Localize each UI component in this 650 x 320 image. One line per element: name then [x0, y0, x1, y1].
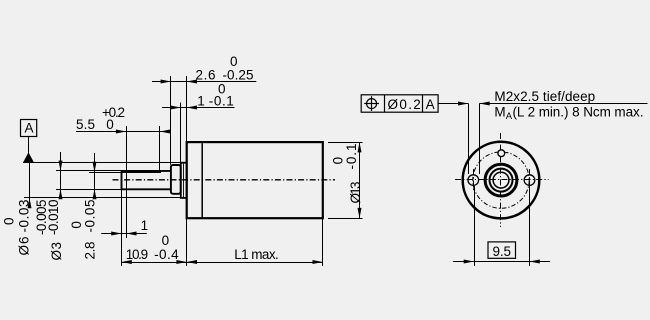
dim 10.9: dimension line [121, 262, 186, 264]
boss (Ø4.5 bearing collar) [171, 165, 181, 194]
dim 2.8: dimension line with outside arrows [94, 153, 96, 193]
M2 hole right [524, 175, 535, 186]
svg-text:M2x2.5 tief/deep: M2x2.5 tief/deep [494, 89, 595, 104]
dim 1: extension line (shaft end) [121, 190, 123, 266]
extension lines M2 hole callout [468, 104, 470, 175]
svg-text:L1 max.: L1 max. [234, 247, 279, 262]
svg-text:-0.1: -0.1 [209, 94, 234, 109]
motor body Ø13 [187, 142, 323, 218]
mounting ring Ø6 [181, 163, 187, 198]
svg-text:-0.1: -0.1 [344, 144, 359, 170]
dim 1 -0.1: dimension line [162, 107, 235, 109]
dim Ø13: extension lines [328, 142, 363, 144]
leader from feature frame [438, 103, 468, 105]
svg-text:-0.4: -0.4 [154, 247, 179, 262]
pin hole top [498, 150, 505, 157]
svg-text:0: 0 [2, 217, 17, 225]
svg-text:10.9: 10.9 [126, 247, 148, 262]
leader M2 text [479, 103, 647, 105]
svg-text:A: A [426, 97, 435, 112]
front cap joint line [201, 143, 203, 217]
dim 5.5: dimension line [76, 131, 170, 133]
datum leader [28, 137, 30, 153]
dim L1: extension line (body rear) [322, 218, 324, 266]
datum A box [21, 120, 37, 137]
svg-text:9.5: 9.5 [493, 244, 512, 259]
dim 9.5: extension lines [474, 186, 476, 266]
svg-text:Ø3: Ø3 [49, 242, 64, 261]
boss Ø4.5 front [490, 169, 513, 192]
svg-text:M: M [494, 105, 505, 120]
svg-text:Ø13: Ø13 [348, 182, 363, 204]
dim 2.8: extension line [89, 172, 121, 174]
dim 9.5: frame box [488, 242, 516, 258]
wire: center axis side view [113, 179, 336, 181]
feature control frame [361, 95, 438, 112]
dim 1 (shaft end): dimension line [101, 233, 147, 235]
svg-text:(L 2 min.) 8 Ncm max.: (L 2 min.) 8 Ncm max. [513, 105, 644, 120]
dim Ø3: extension lines [56, 170, 160, 172]
svg-text:1: 1 [141, 218, 149, 233]
svg-text:0: 0 [106, 117, 114, 132]
position tolerance symbol [367, 99, 377, 109]
dim 2.6: extension line (boss face) [170, 76, 172, 165]
wire: front view horizontal center line [455, 179, 549, 181]
dim 5.5: extension lines [126, 126, 128, 238]
datum triangle [23, 152, 34, 162]
svg-text:-0.05: -0.05 [82, 200, 97, 233]
wire: front view vertical center line [500, 133, 502, 227]
M2 hole left [468, 175, 479, 186]
ring Ø6 front [485, 164, 517, 196]
svg-text:Ø0.2: Ø0.2 [388, 97, 421, 112]
dim 9.5: dimension line with outside arrows [453, 261, 550, 263]
dim Ø3: dimension line with outside arrows [60, 152, 62, 193]
svg-text:-0.03: -0.03 [17, 200, 32, 233]
dim Ø6: dimension line [29, 163, 31, 208]
dim L1 max.: dimension line [187, 262, 323, 264]
svg-text:-0.010: -0.010 [46, 200, 61, 236]
svg-text:A: A [25, 120, 34, 135]
bolt circle (dash-dot) [473, 152, 529, 208]
svg-text:2.8: 2.8 [82, 242, 97, 260]
dim 2.6: dimension line [152, 81, 256, 83]
dim 1 -0.1: extension line (ring face) [180, 103, 182, 163]
svg-text:A: A [506, 111, 513, 122]
svg-text:-0.25: -0.25 [223, 67, 254, 82]
extension line of body front face [186, 76, 188, 142]
flange outer circle Ø13 [463, 142, 540, 219]
shaft (Ø3 with 2.8 flat) [121, 171, 172, 190]
svg-text:Ø6: Ø6 [17, 237, 32, 256]
svg-text:1: 1 [197, 94, 205, 109]
svg-text:5.5: 5.5 [76, 117, 95, 132]
svg-text:2.6: 2.6 [196, 67, 216, 82]
dim Ø13: dimension line [359, 142, 361, 218]
dim Ø6: extension lines [23, 162, 181, 164]
shaft Ø3 front [493, 172, 509, 188]
